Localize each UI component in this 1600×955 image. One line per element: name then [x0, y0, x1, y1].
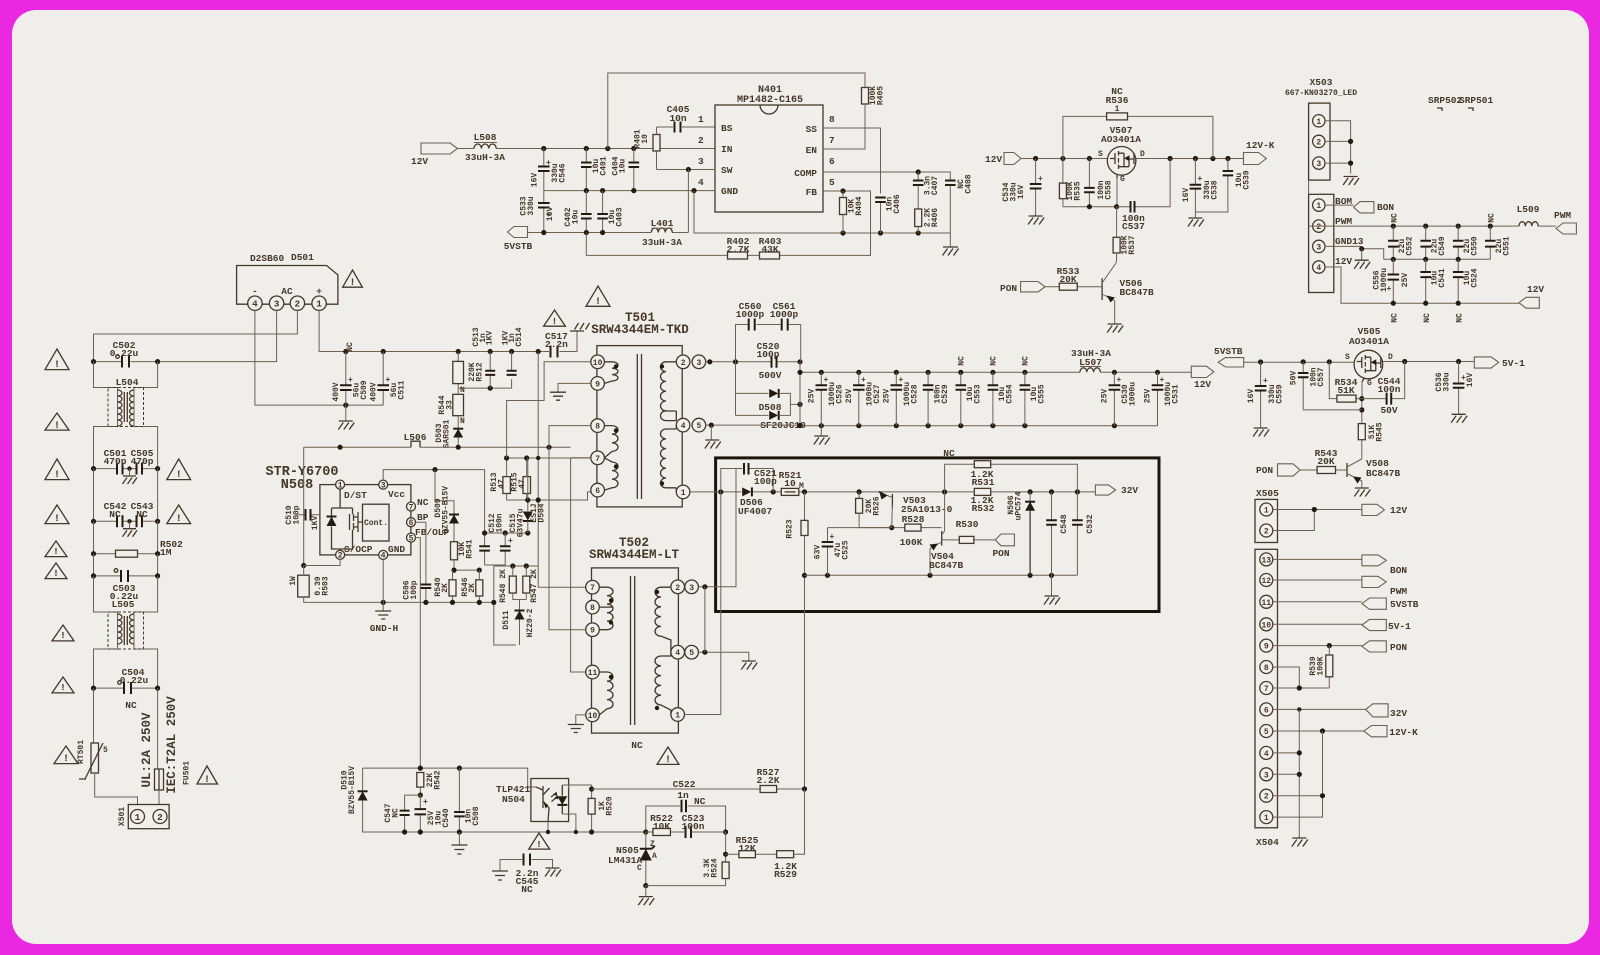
svg-text:!: ! [176, 470, 182, 481]
svg-text:!: ! [54, 514, 60, 525]
T501 pin 7 [591, 451, 605, 465]
T502 pin3 wire up [698, 469, 736, 587]
T502 core [631, 576, 635, 725]
ground left of C545 [492, 871, 508, 880]
svg-text:IEC:T2AL 250V: IEC:T2AL 250V [165, 696, 179, 794]
svg-text:PWM: PWM [1335, 216, 1352, 227]
T502 pin 5 [685, 645, 699, 659]
svg-text:3: 3 [274, 299, 280, 310]
svg-text:1: 1 [338, 481, 343, 490]
svg-text:BC847B: BC847B [1366, 468, 1401, 479]
svg-text:A: A [652, 852, 657, 861]
svg-text:1n: 1n [677, 790, 689, 801]
ground below C536 [1451, 414, 1467, 423]
svg-text:C527: C527 [873, 384, 882, 403]
svg-text:11: 11 [1261, 599, 1271, 608]
resistor R513 47 [503, 477, 511, 494]
svg-text:X501: X501 [118, 807, 127, 826]
svg-text:C531: C531 [1172, 384, 1181, 403]
svg-text:16V: 16V [1247, 389, 1256, 404]
svg-text:AO3401A: AO3401A [1349, 336, 1389, 347]
net tag PON (V508) [1278, 464, 1301, 476]
capacitor C514 1n 1KV [511, 352, 513, 371]
bridge rectifier D501 D2SB60 [237, 266, 338, 305]
terminal 2 [290, 296, 304, 310]
svg-text:C557: C557 [1317, 367, 1326, 386]
svg-text:1M: 1M [160, 547, 172, 558]
wire top loop from rail to R405 [608, 73, 865, 149]
net tag 12V output [1191, 366, 1214, 377]
zener D511 HZ20-2 [515, 610, 525, 612]
resistor R534 51K [1329, 362, 1362, 399]
svg-text:32V: 32V [1121, 485, 1138, 496]
svg-text:L506: L506 [404, 432, 427, 443]
svg-text:IN: IN [721, 144, 733, 155]
wire FB node row [363, 768, 536, 787]
svg-text:COMP: COMP [794, 168, 817, 179]
resistor R521 10 [781, 488, 799, 495]
svg-text:PON: PON [1256, 465, 1273, 476]
svg-text:BC847B: BC847B [929, 560, 964, 571]
svg-text:0.22u: 0.22u [110, 348, 139, 359]
svg-text:5V-1: 5V-1 [1388, 621, 1411, 632]
resistor R536 NC bypass [1063, 116, 1213, 158]
svg-text:L508: L508 [474, 132, 497, 143]
svg-text:PON: PON [992, 548, 1009, 559]
wire GND drop to bottom rail [694, 191, 950, 233]
T501 pin 4 [676, 418, 690, 432]
svg-text:100n: 100n [682, 821, 705, 832]
svg-text:PON: PON [1390, 642, 1407, 653]
svg-text:16V: 16V [1182, 188, 1191, 203]
wire bridge AC pin2 [94, 310, 298, 361]
ground above C517 [570, 323, 590, 331]
T501 winding 8-7 [604, 426, 618, 458]
wire SS pin8 [823, 128, 881, 233]
svg-text:SARS01: SARS01 [443, 419, 452, 448]
svg-text:R545: R545 [1376, 422, 1385, 441]
svg-text:D504: D504 [538, 503, 547, 522]
long feedback rail down to R527 [804, 575, 806, 789]
svg-text:100p: 100p [754, 476, 777, 487]
svg-text:C407: C407 [931, 176, 940, 195]
svg-text:16V: 16V [1466, 373, 1475, 388]
capacitor C510 100p 1KV [304, 514, 320, 516]
svg-text:12V: 12V [1390, 505, 1407, 516]
svg-text:50V: 50V [1290, 371, 1299, 386]
svg-text:6: 6 [595, 487, 600, 496]
svg-text:4: 4 [1316, 264, 1321, 273]
svg-text:9: 9 [595, 380, 600, 389]
svg-text:5: 5 [409, 534, 414, 543]
resistor R402 2.7K [586, 233, 759, 256]
capacitor C509 56u 400V [345, 352, 347, 406]
svg-text:1KV: 1KV [311, 516, 320, 531]
svg-text:C546: C546 [559, 163, 568, 182]
left filter rails [94, 362, 158, 469]
net tag 12V (bank) [1519, 297, 1539, 308]
wire 12V to V507 S [1021, 158, 1244, 160]
svg-text:47: 47 [518, 479, 527, 489]
resistor R406 2.2K [915, 209, 922, 227]
T501 pin 6 [591, 483, 605, 497]
inductor L507 33uH-3A [1080, 368, 1100, 373]
T502 winding 7-9 [599, 587, 613, 630]
ground below C538 [1188, 218, 1204, 227]
svg-text:12K: 12K [738, 843, 755, 854]
T502 pin10 ground [576, 715, 586, 725]
feedback highlight box [716, 458, 1159, 612]
warning triangles left column [45, 349, 69, 370]
svg-text:C529: C529 [941, 384, 950, 403]
resistor R522 10K [646, 831, 684, 833]
svg-text:25V: 25V [808, 389, 817, 404]
wire snubber tops row R548 R547 [494, 565, 538, 567]
wire R512 bottom row [458, 379, 511, 388]
wire rails to R502 row [94, 521, 158, 553]
wire S/OCP pin2 to R503 top [304, 559, 340, 565]
svg-text:470p: 470p [131, 456, 154, 467]
ground below V508 [1354, 488, 1370, 497]
capacitor C559 330u 16V [1260, 362, 1262, 428]
svg-text:12V: 12V [1194, 379, 1211, 390]
svg-text:C: C [637, 864, 642, 873]
net tag 12V-K [1244, 153, 1267, 165]
ground below C508 [457, 829, 462, 834]
svg-text:100K: 100K [1317, 656, 1326, 675]
svg-text:D: D [1388, 353, 1393, 362]
svg-text:G: G [1367, 379, 1372, 388]
svg-text:PON: PON [1000, 283, 1017, 294]
ground below C509 [345, 405, 347, 421]
X504 pin9 PON [1273, 645, 1362, 647]
terminal 3 [269, 296, 283, 310]
svg-text:C532: C532 [1086, 514, 1095, 533]
svg-text:32V: 32V [1390, 708, 1407, 719]
capacitor C541 10u [1425, 259, 1427, 303]
svg-text:3: 3 [696, 359, 701, 368]
svg-text:470p: 470p [104, 456, 127, 467]
svg-text:16V: 16V [1017, 185, 1026, 200]
svg-text:6: 6 [1264, 706, 1269, 715]
svg-text:C540: C540 [442, 808, 451, 827]
T502 pin 1 [671, 708, 685, 722]
wire R513 R515 tops row [507, 457, 598, 459]
capacitor C506 100p [416, 522, 426, 602]
svg-text:R542: R542 [434, 770, 443, 789]
svg-text:NC: NC [346, 342, 355, 352]
X504 pin11 5VSTB [1273, 601, 1362, 603]
resistor R540 2K [449, 580, 456, 596]
transistor V504 BC847B [941, 531, 943, 546]
C517 snubber wire and cap 2.2n [544, 331, 577, 352]
resistor R401 10 [653, 135, 660, 152]
svg-text:R531: R531 [972, 477, 995, 488]
svg-text:C537: C537 [1122, 221, 1145, 232]
diode D504 ES1J [527, 500, 529, 511]
wire R526 C525 row [828, 527, 942, 529]
svg-text:NC: NC [631, 740, 643, 751]
svg-text:D2SB60: D2SB60 [250, 253, 285, 264]
X504 pin10 5V-1 [1273, 623, 1362, 625]
T502 secondary bottom [655, 652, 671, 714]
svg-text:11: 11 [588, 669, 598, 678]
svg-text:25V: 25V [1101, 389, 1110, 404]
svg-text:C558: C558 [1105, 180, 1114, 199]
GND13 rail [1384, 258, 1491, 260]
capacitor C405 10n [657, 126, 716, 128]
resistor R531 1.2K NC bypass [945, 464, 1078, 492]
svg-text:PWM: PWM [1390, 586, 1407, 597]
svg-text:6: 6 [409, 519, 414, 528]
T501 pin 8 [591, 419, 605, 433]
diode D503 SARS01 [453, 428, 463, 430]
svg-text:43K: 43K [761, 244, 778, 255]
svg-text:N: N [460, 417, 465, 426]
svg-text:2: 2 [157, 812, 163, 823]
capacitor C501 470p [117, 463, 123, 475]
svg-text:C552: C552 [1406, 236, 1415, 255]
resistor R545 51K [1358, 424, 1365, 440]
resistor R529 1.2K [777, 851, 794, 858]
resistor R537 100K [1116, 207, 1118, 238]
T502 pin1 wire up to D506 node [685, 492, 721, 715]
T501 pin 9 [591, 377, 605, 391]
capacitor C554 10u [990, 370, 995, 375]
capacitor C512 100n [485, 533, 528, 565]
shunt N505 LM431A [645, 832, 647, 849]
svg-text:GND-H: GND-H [370, 623, 399, 634]
resistor R526 20K [858, 492, 860, 499]
svg-text:10: 10 [588, 712, 598, 721]
svg-text:C538: C538 [1211, 180, 1220, 199]
svg-text:12: 12 [1261, 577, 1271, 586]
resistor R403 43K [760, 252, 780, 259]
svg-text:R503: R503 [322, 576, 331, 595]
svg-text:UF4007: UF4007 [738, 506, 773, 517]
resistor R512 220K [457, 352, 459, 389]
capacitor C542 NC [117, 515, 123, 527]
svg-text:!: ! [176, 514, 182, 525]
svg-text:N: N [460, 386, 465, 395]
svg-text:!: ! [665, 755, 671, 766]
svg-text:1: 1 [1115, 105, 1120, 114]
svg-text:R524: R524 [711, 858, 720, 877]
capacitor C548 [1051, 492, 1053, 596]
svg-text:BP: BP [417, 512, 429, 523]
svg-text:4: 4 [681, 422, 686, 431]
svg-text:R547 2K: R547 2K [530, 569, 539, 603]
T501 winding 10-9 [604, 362, 618, 384]
svg-text:!: ! [54, 470, 60, 481]
capacitor C502 0.22u [94, 361, 158, 363]
svg-text:10: 10 [593, 359, 603, 368]
svg-text:FB: FB [806, 187, 818, 198]
svg-text:SRW4344EM-LT: SRW4344EM-LT [589, 548, 680, 562]
svg-text:7: 7 [595, 455, 600, 464]
transistor V503 25A1013-0 [891, 494, 893, 508]
svg-text:X503: X503 [1310, 77, 1333, 88]
svg-text:1: 1 [1316, 118, 1321, 127]
svg-text:S: S [1345, 353, 1350, 362]
ground below C526 [820, 426, 822, 436]
svg-text:16V: 16V [531, 173, 540, 188]
capacitor C523 100n [686, 826, 692, 838]
svg-text:C551: C551 [1503, 236, 1512, 255]
X504 pin12 PWM [1273, 579, 1362, 581]
svg-text:C508: C508 [472, 806, 481, 825]
svg-text:NC: NC [1423, 313, 1432, 323]
wire pin3 to output [706, 362, 800, 373]
svg-text:Vcc: Vcc [388, 489, 405, 500]
resistor R404 10K [842, 191, 844, 233]
capacitor C505 470p [137, 463, 143, 475]
svg-text:100n: 100n [1378, 384, 1401, 395]
svg-text:4: 4 [675, 649, 680, 658]
svg-text:100n: 100n [496, 513, 505, 532]
ground GND-H [381, 600, 386, 605]
T502 pin 2 [671, 580, 685, 594]
T501 pin7 wire [571, 457, 591, 459]
svg-text:5: 5 [1264, 728, 1269, 737]
svg-text:BZV55-B15V: BZV55-B15V [442, 486, 451, 534]
svg-text:C559: C559 [1276, 384, 1285, 403]
svg-text:+: + [1117, 376, 1122, 385]
X503 pins 1-3 tie [1325, 121, 1351, 174]
svg-text:!: ! [60, 630, 66, 641]
capacitor C558 100n [1088, 159, 1090, 207]
T501 pin8 wire to D/ST node [549, 426, 591, 630]
svg-text:5VSTB: 5VSTB [1214, 346, 1243, 357]
svg-text:400V: 400V [332, 382, 341, 401]
svg-text:500V: 500V [759, 370, 782, 381]
capacitor C526 1000u 25V [819, 370, 824, 375]
svg-text:16V: 16V [546, 207, 555, 222]
svg-text:8: 8 [590, 604, 595, 613]
svg-text:12V: 12V [1335, 256, 1352, 267]
svg-text:1: 1 [1264, 814, 1269, 823]
wire FB pin5 [780, 191, 871, 255]
svg-text:N508: N508 [281, 478, 313, 493]
jumper L506 [411, 441, 420, 447]
capacitor C530 1000u 25V [1112, 370, 1117, 375]
svg-text:C522: C522 [673, 779, 696, 790]
svg-text:7: 7 [829, 135, 835, 146]
resistor R539 100K [1326, 655, 1333, 677]
mosfet V505 AO3401A [1354, 350, 1383, 379]
svg-text:1000u: 1000u [1129, 382, 1138, 406]
capacitor C525 47u 63V [827, 528, 829, 576]
warning triangles near T501 [586, 286, 610, 306]
thermistor RT501 [93, 688, 95, 743]
resistor R548 2K [509, 576, 516, 593]
svg-text:1000p: 1000p [736, 309, 765, 320]
capacitor C503 0.22u [121, 570, 128, 582]
svg-text:1: 1 [681, 489, 686, 498]
wire R520 row [591, 785, 593, 832]
resistor R547 2K [523, 576, 530, 593]
svg-text:2: 2 [1264, 793, 1269, 802]
svg-text:Z: Z [650, 840, 655, 849]
svg-text:1: 1 [698, 114, 704, 125]
svg-text:2: 2 [338, 552, 343, 561]
svg-text:HZ20-2: HZ20-2 [526, 608, 535, 637]
svg-text:GND: GND [388, 544, 405, 555]
svg-text:25V: 25V [883, 389, 892, 404]
svg-text:3: 3 [1264, 771, 1269, 780]
capacitor C513 1n 1KV [489, 352, 491, 389]
wire opto emitter to rail [547, 822, 549, 833]
warning triangles right of filter rows [167, 459, 191, 480]
resistor R524 3.3K [725, 832, 727, 862]
svg-text:C514: C514 [515, 327, 524, 346]
svg-text:NC: NC [1022, 356, 1031, 366]
capacitor C515 63V47u [485, 533, 506, 565]
resistor R530 [942, 539, 996, 541]
svg-text:NC: NC [125, 700, 137, 711]
inductor L509 [1512, 225, 1519, 227]
svg-text:2: 2 [295, 299, 301, 310]
capacitor C404 10u [633, 149, 635, 191]
svg-text:8: 8 [1264, 664, 1269, 673]
svg-text:2.2K: 2.2K [757, 775, 780, 786]
bottom rail in box [805, 574, 1078, 576]
zener D509 BZV55-B15V [435, 470, 454, 514]
X505 wires to 12V tag [1273, 510, 1362, 531]
svg-text:!: ! [53, 568, 59, 579]
T501 pin 2 [676, 355, 690, 369]
net tag 12V (top right) [1004, 153, 1021, 165]
wire T501 pin1 to 32V [690, 491, 1096, 493]
svg-text:7: 7 [1264, 685, 1269, 694]
svg-text:D: D [1140, 150, 1145, 159]
svg-text:SRW4344EM-TKD: SRW4344EM-TKD [591, 323, 689, 337]
svg-text:33uH-3A: 33uH-3A [642, 237, 682, 248]
svg-text:R523: R523 [786, 519, 795, 538]
svg-text:NC: NC [694, 796, 706, 807]
T501 pin 5 [692, 418, 706, 432]
svg-text:NC: NC [1391, 213, 1400, 223]
svg-text:+: + [316, 286, 322, 297]
dual diode D508 SF20JC10 [736, 362, 769, 416]
svg-text:!: ! [595, 297, 601, 308]
svg-text:2.7K: 2.7K [727, 244, 750, 255]
svg-text:NC: NC [1391, 313, 1400, 323]
svg-text:3: 3 [381, 481, 386, 490]
svg-text:25V: 25V [1401, 273, 1410, 288]
svg-text:6: 6 [829, 156, 835, 167]
svg-text:!: ! [63, 754, 69, 765]
wire RT501 to X501 pin1 [95, 773, 138, 810]
svg-text:NC: NC [109, 509, 121, 520]
svg-text:330u: 330u [527, 196, 536, 215]
PWM rail caps [1393, 225, 1512, 227]
svg-text:C554: C554 [1006, 384, 1015, 403]
12V bottom rail dots and NC labels [1391, 301, 1396, 306]
capacitor C527 1000u 25V [856, 370, 861, 375]
X504 pins 1 2 to 12V-K rail [1273, 731, 1323, 817]
ground below C408 [943, 247, 959, 256]
T501 pin9 ground [558, 383, 591, 392]
capacitor C560 1000p [736, 325, 781, 362]
svg-text:10u: 10u [572, 210, 581, 225]
T501 pin5 ground rail [706, 424, 1158, 427]
svg-text:63V: 63V [814, 545, 823, 560]
svg-text:R537: R537 [1128, 235, 1137, 254]
X504 ground rail [1273, 709, 1300, 838]
svg-text:1: 1 [1316, 202, 1321, 211]
svg-text:R406: R406 [931, 208, 940, 227]
